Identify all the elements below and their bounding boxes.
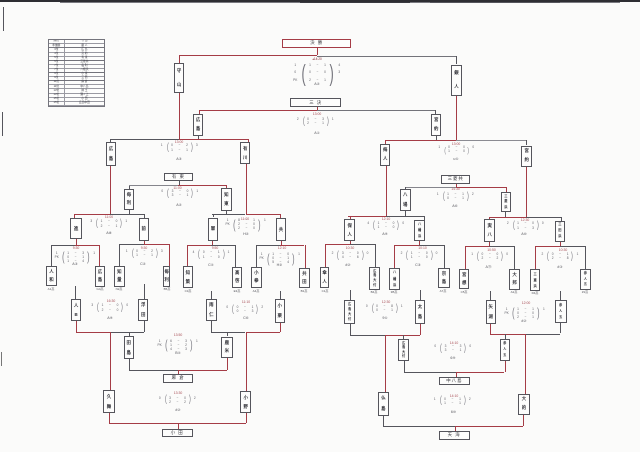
wire third connector dark bbox=[317, 109, 435, 112]
wire cons-b3 rtick bbox=[226, 358, 229, 371]
wire cons-b1 winner drop bbox=[109, 332, 112, 391]
wire stub L m2 loser bbox=[143, 284, 146, 299]
wire round1 m8 connector red bbox=[535, 245, 560, 248]
text round1 m7 school label R bbox=[432, 289, 454, 293]
node qf-l2 winner box a bbox=[208, 218, 219, 241]
text consb2 score bbox=[224, 305, 266, 315]
node qf-r2 winner box a bbox=[484, 219, 495, 242]
text round1 m5 label bbox=[338, 263, 358, 268]
text round1 m5 score bbox=[329, 251, 371, 261]
text consb3 score bbox=[156, 338, 200, 351]
text round1 m7 time bbox=[412, 246, 434, 251]
wire round1 m2 left drop bbox=[118, 244, 121, 266]
wire cons-r ltick bbox=[404, 187, 407, 189]
wire qf-l2 connector dark bbox=[212, 213, 245, 216]
wire cons-r connector dark bbox=[405, 186, 456, 189]
text round1 m3 label bbox=[201, 263, 221, 268]
text round1 m4 school label R bbox=[293, 289, 315, 293]
wire cons-b4 winner tick bbox=[177, 423, 180, 428]
text final time bbox=[304, 57, 330, 61]
wire qf-r2 ltick bbox=[488, 217, 491, 219]
text round1 m5 school label L bbox=[314, 289, 336, 293]
wire round1 m8 right drop bbox=[584, 246, 587, 269]
text round1 m3 school label L bbox=[177, 289, 199, 293]
text consb4 time bbox=[167, 391, 189, 396]
wire sf-left connector red bbox=[179, 138, 249, 141]
node round1 m3 left leaf bbox=[183, 266, 193, 288]
wire third tick bbox=[316, 107, 319, 110]
node qf-r1 winner box b bbox=[414, 220, 426, 241]
wire cons-l connector red bbox=[178, 184, 226, 187]
wire final connector red half bbox=[179, 54, 317, 57]
text round1 m2 score bbox=[123, 249, 165, 259]
node third left team bbox=[193, 114, 203, 136]
node sf-right team2 bbox=[521, 146, 533, 168]
text consb5 time bbox=[515, 301, 537, 306]
text qfl1 score bbox=[88, 219, 130, 229]
node final title box bbox=[282, 39, 351, 48]
node third place title box bbox=[290, 98, 341, 107]
wire sf-left t2 down bbox=[245, 164, 248, 214]
text round1 m6 score bbox=[469, 252, 511, 262]
text round1 m8 school label R bbox=[574, 290, 596, 294]
wire final winner tick bbox=[316, 47, 319, 55]
scan left edge marks bbox=[3, 7, 4, 31]
text consl label bbox=[168, 203, 190, 208]
text consb5 score bbox=[503, 306, 547, 319]
wire round1 m1 winner tick bbox=[75, 239, 78, 245]
wire round1 m8 winner tick bbox=[559, 241, 562, 246]
text round1 m8 time bbox=[552, 248, 574, 253]
wire cons-b7 connector dark bbox=[404, 371, 455, 374]
wire third right drop bbox=[434, 110, 437, 114]
text qfr1 score bbox=[365, 221, 407, 231]
text third label bbox=[306, 131, 328, 136]
text round1 m5 time bbox=[339, 246, 361, 251]
wire cons-b8 connector red bbox=[455, 425, 523, 428]
text consb2 time bbox=[235, 300, 257, 305]
wire cons-b2 connector red bbox=[246, 331, 280, 334]
wire qf-r2 connector dark bbox=[526, 216, 561, 219]
wire round1 m5 connector red bbox=[325, 243, 350, 246]
wire stub R m7 loser bbox=[419, 290, 422, 300]
wire qf-r1 rtick bbox=[423, 216, 426, 220]
wire round1 m1 right drop bbox=[98, 245, 101, 266]
scan top edge band bbox=[0, 0, 640, 2]
wire round1 m3 connector dark bbox=[211, 244, 235, 247]
wire cons-b5 rvert bbox=[559, 322, 562, 333]
text consb1 time bbox=[100, 299, 122, 304]
wire round1 m1 connector red bbox=[75, 244, 99, 247]
text qfr1 label bbox=[374, 232, 396, 237]
wire qf-l2 rtick bbox=[279, 214, 282, 218]
node cons-b4 team2 bbox=[240, 391, 251, 413]
wire cons-b2 rvert bbox=[279, 322, 282, 332]
wire round1 m6 winner tick bbox=[488, 241, 491, 246]
wire round1 m7 right drop bbox=[443, 245, 446, 268]
wire cons-b6 lvert bbox=[349, 324, 352, 335]
wire round1 m5 right drop bbox=[374, 244, 377, 267]
wire qf-r2 loser tick bbox=[504, 212, 507, 217]
wire round1 m7 connector dark bbox=[419, 244, 444, 247]
text consb7 score bbox=[432, 344, 474, 354]
text consb7 time bbox=[443, 341, 465, 346]
text consl time bbox=[167, 186, 189, 191]
text consb8 label bbox=[443, 410, 465, 415]
node cons-b4 winner label bbox=[162, 429, 193, 438]
wire cons-b2 lvert bbox=[210, 321, 213, 332]
node sf-right team1 bbox=[380, 144, 390, 166]
wire stub R m5 loser bbox=[349, 290, 352, 300]
node cons-l team2 bbox=[221, 188, 231, 211]
node round1 m8 left leaf bbox=[530, 269, 541, 291]
wire sf-right rtick bbox=[525, 140, 528, 145]
wire round1 m6 left drop bbox=[464, 246, 467, 268]
wire round1 m1 connector dark bbox=[51, 244, 75, 247]
wire final connector dark half bbox=[317, 55, 456, 58]
wire round1 m1 left drop bbox=[50, 245, 53, 265]
wire round1 m3 winner tick bbox=[211, 241, 214, 245]
wire cons-b6 winner drop bbox=[384, 335, 387, 392]
text consr score bbox=[434, 192, 476, 202]
node cons-b2 team2 bbox=[275, 299, 285, 322]
wire cons-r tick bbox=[455, 184, 458, 187]
text qfl1 label bbox=[98, 231, 120, 236]
wire cons-b3 ltick bbox=[128, 359, 131, 370]
wire sf-right t2 down bbox=[525, 167, 528, 217]
wire round1 m4 left drop bbox=[255, 245, 258, 267]
wire round1 m4 winner tick bbox=[280, 241, 283, 246]
node round1 m8 right leaf bbox=[580, 269, 591, 290]
wire cons-b7 rtick bbox=[504, 360, 507, 372]
text round1 m6 time bbox=[481, 248, 503, 253]
wire third right loser stub bbox=[435, 136, 438, 141]
node finalist left bbox=[174, 63, 184, 94]
text round1 m8 score bbox=[539, 252, 581, 262]
node round1 m7 left leaf bbox=[389, 268, 401, 290]
wire cons-b3 connector dark bbox=[129, 369, 178, 372]
text consb3 label bbox=[167, 351, 189, 356]
node cons-b8 team1 bbox=[378, 392, 388, 416]
wire cons-b5 connector red bbox=[490, 333, 525, 336]
wire cons-b4 ltick bbox=[108, 413, 111, 424]
text consb6 label bbox=[374, 316, 396, 321]
node round1 m1 right leaf bbox=[95, 266, 105, 287]
text round1 m3 time bbox=[204, 246, 226, 251]
node cons-b1 team2 bbox=[138, 299, 148, 321]
text consb7 label bbox=[442, 356, 464, 361]
text round1 m1 school label R bbox=[89, 287, 111, 291]
text round1 m7 label bbox=[408, 263, 428, 268]
wire final right drop bbox=[455, 56, 458, 65]
wire round1 m4 connector red bbox=[280, 244, 304, 247]
node cons-l team1 bbox=[124, 189, 134, 210]
text round1 m1 label bbox=[65, 262, 85, 267]
node round1 m6 left leaf bbox=[459, 269, 469, 290]
wire round1 m2 connector dark bbox=[119, 243, 144, 246]
text round1 m5 school label R bbox=[363, 290, 385, 294]
wire sf-left ltick bbox=[109, 139, 112, 142]
text qfl2 time bbox=[234, 217, 256, 222]
text qfl2 score bbox=[224, 218, 268, 231]
wire round1 m3 right drop bbox=[234, 245, 237, 267]
wire cons-b6 rvert bbox=[419, 324, 422, 335]
wire cons-l tick bbox=[178, 181, 181, 186]
text sfr time bbox=[445, 142, 467, 147]
node round1 m5 right leaf bbox=[369, 267, 380, 290]
text consb4 label bbox=[167, 408, 189, 413]
wire cons-b2 winner drop bbox=[245, 332, 248, 391]
node round1 m2 left leaf bbox=[114, 266, 125, 287]
node cons-r team2 bbox=[501, 192, 511, 213]
text consb6 time bbox=[375, 300, 397, 305]
text round1 m2 time bbox=[133, 246, 155, 251]
node cons-b4 team1 bbox=[103, 390, 115, 413]
wire sf-right connector gray seg bbox=[456, 139, 526, 142]
wire round1 m3 connector red bbox=[187, 244, 211, 247]
node consolation-left winner label bbox=[164, 173, 193, 181]
wire round1 m2 connector red bbox=[144, 243, 169, 246]
wire round1 m6 connector red bbox=[465, 245, 490, 248]
node finalist right bbox=[451, 65, 462, 97]
node consolation-right winner label bbox=[441, 175, 470, 184]
text consb3 time bbox=[167, 333, 189, 338]
node round1 m1 left leaf bbox=[46, 266, 57, 286]
node round1 m4 left leaf bbox=[251, 267, 261, 288]
text round1 m1 school label L bbox=[40, 287, 62, 291]
wire cons-b7 connector red bbox=[456, 371, 505, 374]
text round1 m4 label bbox=[270, 263, 290, 268]
node cons-b7 winner label bbox=[439, 377, 470, 386]
text final label bbox=[306, 82, 328, 87]
text third time bbox=[304, 112, 330, 117]
node cons-b6 team1 bbox=[344, 300, 356, 324]
wire stub L m4 loser bbox=[279, 291, 282, 299]
node cons-b3 winner label bbox=[163, 374, 193, 383]
wire third left drop bbox=[198, 110, 201, 114]
text round1 m2 school label L bbox=[108, 287, 130, 291]
wire finalist right down bbox=[455, 96, 458, 140]
wire qf-l1 connector red bbox=[74, 213, 109, 216]
text round1 m8 label bbox=[550, 265, 570, 270]
wire cons-b4 rtick bbox=[245, 413, 248, 423]
wire third left loser stub bbox=[197, 135, 200, 139]
wire round1 m3 left drop bbox=[186, 245, 189, 266]
wire qf-l2 loser tick bbox=[225, 211, 228, 215]
wire qf-r1 connector red bbox=[348, 215, 386, 218]
text consb5 label bbox=[513, 319, 535, 324]
wire cons-b7 ltick bbox=[403, 360, 406, 372]
wire round1 m5 left drop bbox=[324, 244, 327, 267]
wire stub L m1 loser bbox=[74, 286, 77, 299]
wire sf-right ltick bbox=[384, 140, 387, 144]
node qf-l1 winner box a bbox=[70, 218, 81, 239]
wire cons-b7 winner tick bbox=[455, 372, 458, 377]
node cons-b3 team1 bbox=[124, 336, 134, 360]
text round1 m7 score bbox=[398, 251, 440, 261]
wire cons-b3 connector red bbox=[178, 369, 227, 372]
wire cons-b1 connector dark bbox=[110, 331, 143, 334]
node qf-l1 winner box b bbox=[139, 218, 149, 241]
text qfr2 label bbox=[513, 232, 535, 237]
text round1 m4 time bbox=[271, 246, 293, 251]
text qfr2 time bbox=[514, 218, 536, 223]
wire qf-l1 connector dark bbox=[110, 213, 145, 216]
wire cons-b6 loser tick bbox=[402, 335, 405, 339]
text consr time bbox=[445, 187, 467, 192]
standings table bbox=[48, 39, 105, 107]
wire cons-r rtick bbox=[505, 187, 508, 192]
wire round1 m4 connector dark bbox=[256, 244, 280, 247]
text round1 m6 school label R bbox=[503, 290, 525, 294]
wire round1 m4 right drop bbox=[304, 245, 307, 268]
wire cons-b6 connector dark bbox=[350, 334, 385, 337]
wire sf-right t1 down bbox=[385, 166, 388, 216]
text round1 m4 score bbox=[258, 252, 302, 265]
wire sf-left t1 down bbox=[109, 166, 112, 214]
text round1 m8 school label L bbox=[524, 291, 546, 295]
wire cons-b8 ltick bbox=[382, 415, 385, 426]
wire round1 m6 connector dark bbox=[489, 245, 514, 248]
node qf-r2 winner box b bbox=[555, 221, 566, 242]
text consb4 score bbox=[156, 395, 198, 405]
wire third connector red bbox=[199, 109, 317, 112]
wire cons-b8 connector dark bbox=[383, 425, 455, 428]
wire round1 m7 winner tick bbox=[418, 241, 421, 245]
node cons-b3 team2 bbox=[221, 337, 233, 359]
node round1 m4 right leaf bbox=[299, 268, 310, 288]
wire qf-l2 ltick bbox=[212, 214, 215, 217]
node round1 m5 left leaf bbox=[320, 267, 329, 289]
wire qf-r1 connector dark bbox=[386, 215, 424, 218]
text consb6 score bbox=[363, 304, 405, 314]
wire sf-left connector dark bbox=[110, 138, 179, 141]
wire round1 m5 winner tick bbox=[349, 241, 352, 245]
wire qf-r1 ltick bbox=[349, 216, 352, 219]
node cons-b5 team2 bbox=[555, 300, 567, 323]
text round1 m3 school label R bbox=[226, 289, 248, 293]
wire round1 m5 connector dark bbox=[350, 243, 375, 246]
text consl score bbox=[159, 189, 201, 199]
wire round1 m8 left drop bbox=[534, 246, 537, 268]
node cons-b5 team1 bbox=[486, 300, 496, 324]
wire final left drop bbox=[178, 55, 181, 63]
text qfl1 time bbox=[98, 215, 120, 220]
wire round1 m2 right drop bbox=[168, 244, 171, 266]
text consb8 time bbox=[443, 394, 465, 399]
node round1 m7 right leaf bbox=[438, 268, 450, 288]
wire cons-b8 winner tick bbox=[454, 426, 457, 431]
text third score bbox=[294, 117, 336, 127]
wire cons-b8 rtick bbox=[522, 415, 525, 426]
wire cons-l rtick bbox=[225, 185, 228, 188]
wire cons-b1 connector red bbox=[76, 331, 111, 334]
text consb1 score bbox=[89, 303, 131, 313]
wire stub R m8 loser bbox=[559, 291, 562, 300]
text round1 m4 school label L bbox=[245, 289, 267, 293]
wire qf-r2 connector red bbox=[489, 216, 526, 219]
wire qf-r2 rtick bbox=[560, 217, 563, 221]
text round1 m6 school label L bbox=[453, 290, 475, 294]
wire round1 m2 winner tick bbox=[143, 241, 146, 245]
node round1 m6 right leaf bbox=[509, 269, 520, 291]
node cons-b8 winner label bbox=[439, 431, 470, 440]
node round1 m3 right leaf bbox=[232, 267, 242, 288]
text qfl2 label bbox=[235, 232, 257, 237]
wire cons-l ltick bbox=[128, 186, 131, 190]
node cons-b7 team2 bbox=[500, 339, 510, 361]
wire cons-b1 lvert bbox=[75, 321, 78, 332]
wire qf-l1 ltick bbox=[73, 214, 76, 218]
wire sf-right connector red seg bbox=[385, 139, 456, 142]
text round1 m2 school label R bbox=[156, 287, 178, 291]
wire cons-l connector dark bbox=[129, 184, 178, 187]
wire cons-b4 connector dark bbox=[178, 422, 246, 425]
text sfl label bbox=[168, 157, 190, 162]
wire cons-b2 loser tick bbox=[226, 332, 229, 336]
text consb1 label bbox=[99, 316, 121, 321]
text round1 m7 school label L bbox=[383, 290, 405, 294]
text round1 m6 label bbox=[479, 265, 499, 270]
wire round1 m6 right drop bbox=[513, 246, 516, 268]
wire qf-l2 connector red bbox=[246, 213, 281, 216]
node qf-r1 winner box a bbox=[344, 219, 356, 241]
text sfr score bbox=[436, 146, 477, 154]
node sf-left team2 bbox=[240, 142, 250, 164]
wire stub R m6 loser bbox=[489, 291, 492, 300]
node round1 m2 right leaf bbox=[163, 266, 170, 287]
wire cons-b5 connector dark bbox=[525, 333, 561, 336]
wire round1 m7 connector red bbox=[394, 244, 419, 247]
text round1 m1 score bbox=[53, 250, 97, 263]
text round1 m2 label bbox=[133, 262, 153, 267]
wire cons-b5 lvert bbox=[489, 324, 492, 334]
wire cons-b1 rvert bbox=[143, 321, 146, 332]
text consb2 label bbox=[235, 316, 257, 321]
text round1 m3 score bbox=[190, 250, 232, 260]
wire finalist left down bbox=[178, 93, 181, 139]
wire cons-b1 loser tick bbox=[128, 332, 131, 336]
wire cons-b6 connector red bbox=[385, 334, 420, 337]
node cons-b6 team2 bbox=[415, 300, 426, 324]
node cons-b7 team1 bbox=[398, 339, 409, 361]
text sfl time bbox=[168, 140, 190, 145]
wire cons-r connector red bbox=[456, 186, 506, 189]
text qfr1 time bbox=[375, 217, 397, 222]
wire cons-b3 winner tick bbox=[177, 370, 180, 374]
wire round1 m7 left drop bbox=[393, 245, 396, 268]
text consr label bbox=[444, 204, 466, 209]
text final score bbox=[292, 62, 342, 85]
wire cons-b2 connector dark bbox=[211, 331, 245, 334]
node cons-b8 team2 bbox=[518, 394, 530, 415]
wire cons-b5 winner drop bbox=[524, 334, 527, 394]
wire cons-b5 loser tick bbox=[504, 334, 507, 340]
wire qf-r1 loser tick bbox=[404, 211, 407, 216]
node cons-b1 team1 bbox=[71, 299, 82, 321]
wire qf-l1 rtick bbox=[143, 214, 146, 218]
wire stub L m3 loser bbox=[210, 291, 213, 299]
wire cons-b4 connector red bbox=[109, 422, 178, 425]
node sf-left team1 bbox=[106, 142, 117, 166]
node third right team bbox=[431, 114, 441, 136]
text sfr label bbox=[445, 157, 467, 162]
wire round1 m8 connector dark bbox=[560, 245, 585, 248]
wire sf-left rtick bbox=[247, 139, 250, 142]
node cons-b2 team1 bbox=[206, 299, 216, 322]
node qf-l2 winner box b bbox=[276, 218, 286, 241]
wire qf-l1 loser tick bbox=[128, 209, 131, 214]
